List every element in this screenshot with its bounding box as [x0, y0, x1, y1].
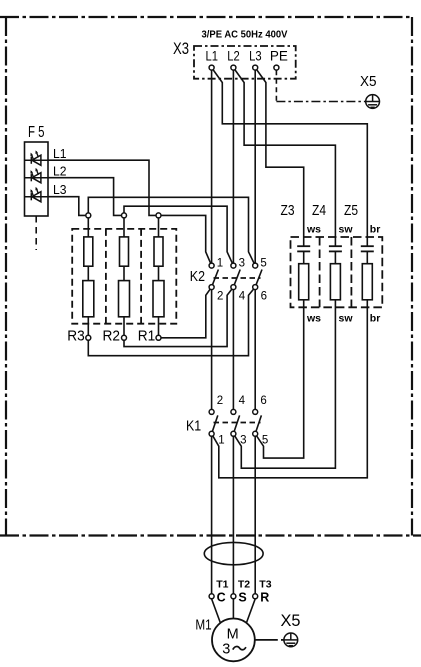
- svg-text:3: 3: [240, 434, 246, 446]
- svg-text:ws: ws: [306, 224, 321, 236]
- svg-text:R3: R3: [67, 327, 85, 344]
- svg-text:3: 3: [239, 258, 245, 270]
- svg-text:L1: L1: [53, 147, 67, 161]
- svg-text:PE: PE: [270, 49, 288, 64]
- svg-text:T1: T1: [216, 578, 228, 590]
- svg-text:M1: M1: [195, 618, 211, 634]
- svg-text:br: br: [370, 224, 381, 236]
- svg-text:R: R: [260, 591, 269, 605]
- svg-text:1: 1: [217, 258, 223, 270]
- svg-text:Z5: Z5: [344, 203, 358, 219]
- svg-text:Z4: Z4: [312, 203, 326, 219]
- svg-text:L1: L1: [206, 49, 219, 64]
- svg-text:K2: K2: [190, 269, 205, 285]
- svg-text:T2: T2: [238, 578, 250, 590]
- svg-text:L2: L2: [53, 164, 67, 178]
- svg-text:X3: X3: [173, 40, 189, 58]
- svg-text:sw: sw: [339, 313, 354, 325]
- svg-text:6: 6: [260, 395, 266, 407]
- svg-text:R1: R1: [138, 327, 156, 344]
- svg-text:3: 3: [222, 642, 230, 658]
- svg-text:X5: X5: [360, 73, 377, 90]
- svg-text:K1: K1: [186, 419, 201, 435]
- svg-text:L2: L2: [227, 49, 240, 64]
- svg-text:1: 1: [218, 434, 224, 446]
- svg-text:Z3: Z3: [281, 203, 295, 219]
- svg-text:5: 5: [260, 258, 266, 270]
- svg-text:T3: T3: [259, 578, 271, 590]
- svg-text:R2: R2: [103, 327, 121, 344]
- svg-text:5: 5: [262, 434, 268, 446]
- svg-text:X5: X5: [281, 611, 301, 630]
- svg-text:M: M: [227, 626, 239, 642]
- svg-text:F 5: F 5: [28, 124, 45, 141]
- svg-text:2: 2: [217, 291, 223, 303]
- svg-text:6: 6: [261, 291, 267, 303]
- svg-text:2: 2: [217, 395, 223, 407]
- svg-text:S: S: [238, 591, 246, 605]
- svg-text:L3: L3: [249, 49, 262, 64]
- svg-text:sw: sw: [339, 224, 354, 236]
- svg-text:br: br: [370, 313, 381, 325]
- svg-text:C: C: [217, 591, 226, 605]
- svg-text:3/PE AC 50Hz 400V: 3/PE AC 50Hz 400V: [202, 30, 288, 41]
- svg-text:ws: ws: [306, 313, 321, 325]
- svg-text:L3: L3: [53, 183, 67, 197]
- svg-text:4: 4: [239, 395, 246, 407]
- svg-text:4: 4: [239, 291, 246, 303]
